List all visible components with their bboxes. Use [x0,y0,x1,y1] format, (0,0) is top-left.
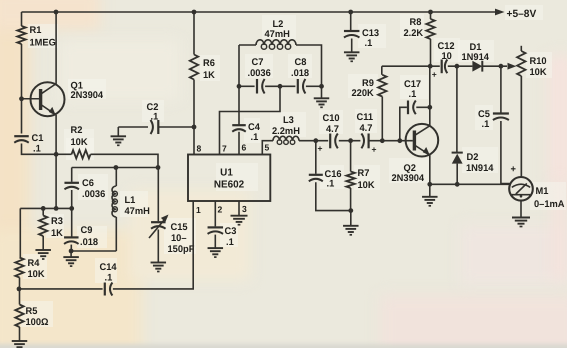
ground below R3 [35,250,51,259]
wire top +V supply rail [22,10,497,15]
svg-text:.1: .1 [33,144,41,155]
label C9 [80,225,99,248]
wire pin 5 lead [262,141,273,155]
label C4 [248,122,261,143]
svg-text:C4: C4 [248,122,261,133]
node emitter/R2 junction [54,152,59,157]
ground below R7 [343,226,359,235]
wire C15 to ground [157,230,159,263]
wire pin 7 to tank tap [220,86,281,154]
svg-text:1: 1 [196,205,201,215]
power +5-8V supply arrow and label [495,8,536,20]
capacitor C9 [64,237,79,244]
resistor R10 potentiometer [517,46,525,177]
label C16 [325,169,342,189]
wire R9 top to R8 node [382,64,440,69]
capacitor C12 [442,60,448,74]
plus mark M1 [511,164,517,175]
wire C7 to C8 [265,84,295,89]
capacitor C13 branch [350,12,352,30]
svg-text:10K: 10K [530,67,547,78]
wire oscillator tank top [72,167,158,169]
label L3 [272,115,300,137]
label R6 [203,58,215,81]
capacitor C2 [151,120,159,134]
capacitor C15 variable [149,215,169,239]
wire C6 to node [71,190,73,237]
svg-text:C15: C15 [171,222,189,233]
svg-text:R1: R1 [30,25,43,36]
capacitor C11 [361,134,368,149]
capacitor C7 [257,79,265,94]
label R4 [28,258,45,280]
pin 2 label [218,205,223,215]
svg-text:10: 10 [442,51,452,62]
wire R1 to Q1 base node [21,44,23,134]
label R1 value [30,25,56,48]
svg-text:.1: .1 [409,89,417,100]
node R3/emitter wire junction [69,206,74,211]
svg-text:2.2mH: 2.2mH [272,126,300,137]
svg-text:NE602: NE602 [214,180,245,191]
svg-text:2.2K: 2.2K [404,28,424,39]
svg-text:.1: .1 [482,119,490,130]
label C6 [82,178,105,200]
label C17 [404,79,421,100]
wire base bias row [20,206,71,211]
capacitor C17 branch left [400,107,407,140]
wire R10 to meter [520,76,522,177]
label R5 [26,306,49,328]
svg-text:.1: .1 [327,179,335,190]
inductor L3 [273,136,299,144]
svg-text:+: + [432,70,437,80]
wire C9 node stub [70,251,72,257]
wire C16 to R7 bottom [316,182,351,210]
svg-text:R10: R10 [530,56,547,67]
svg-text:.1: .1 [226,237,234,248]
wire tank right to ground [321,86,323,98]
svg-text:3: 3 [242,204,247,214]
wire Q2 collector [429,107,431,126]
wire C12 to D1 [448,64,473,69]
plus mark C12 [432,70,437,80]
capacitor C4 [232,125,246,132]
wire C8 to tank right [306,84,324,89]
plus mark C10 [318,144,323,154]
svg-text:U1: U1 [220,168,233,179]
resistor R1 [17,26,25,44]
wire C9 node to L1 bottom [71,250,116,252]
wire C2 to pin8 node [159,126,194,128]
svg-text:2N3904: 2N3904 [392,173,425,184]
wire tank to C6 [71,168,73,182]
resistor R7 [346,141,354,211]
op-amp U1 NE602 box [188,155,270,202]
ground below C9 [63,257,79,266]
svg-text:+5–8V: +5–8V [507,8,537,20]
svg-text:.1: .1 [251,132,259,143]
plus mark C11 [372,145,377,155]
wire pin 3 lead [238,201,240,215]
label C1 [32,133,45,154]
wiper arrow into R10 [508,63,517,70]
svg-text:4.7: 4.7 [326,124,339,135]
svg-text:.1: .1 [365,38,373,49]
ground below M1 [512,218,530,227]
svg-text:.018: .018 [291,68,310,79]
resistor R4 [15,258,23,278]
label Q1 [71,81,104,101]
capacitor C5 branch [500,66,502,112]
capacitor C17 [408,101,416,115]
svg-text:C9: C9 [81,225,93,236]
resistor R8 [426,12,434,66]
label M1 [534,186,565,210]
wire pin 8 lead [193,127,195,155]
svg-text:1K: 1K [203,70,215,81]
node Q1 base junction [19,96,24,101]
wire L1 bottom lead [115,217,117,251]
wire L3 to C10 [299,138,328,143]
wire C5 to output row [501,121,510,184]
resistor R5 [15,305,23,328]
diode D2 branch [456,66,458,152]
svg-text:4.7: 4.7 [360,123,373,134]
label Q2 [392,163,425,184]
svg-text:M1: M1 [536,186,550,197]
svg-text:R3: R3 [51,216,63,227]
ground below C13 [344,52,360,61]
svg-text:L3: L3 [283,115,294,126]
pin 5 label [265,143,270,153]
wire tank bottom left [237,84,255,89]
wire C9 to ground node [69,245,74,254]
svg-text:5: 5 [265,143,270,153]
ground below pin 3 [231,216,248,225]
label R9 [352,78,374,99]
label R2 [71,125,88,148]
svg-text:10K: 10K [358,180,375,191]
node C16/R7 ground [348,208,353,213]
svg-text:C3: C3 [225,226,237,237]
pin 8 label [197,144,202,154]
resistor R2 [72,150,91,158]
transistor Q2 [406,124,439,157]
node L1 top [114,165,119,170]
wire D1 to C5 node [482,64,507,69]
label D1 [462,42,490,63]
svg-text:C12: C12 [438,41,455,52]
ground below tank [314,98,330,107]
svg-text:47mH: 47mH [265,29,290,40]
ground below Q2 [422,197,438,206]
wire C1 bottom to R2 wire [22,144,57,155]
ground below C3 [208,248,224,257]
svg-text:R5: R5 [26,306,39,317]
svg-text:L1: L1 [125,195,137,206]
svg-text:10–: 10– [171,233,187,244]
capacitor C6 [64,183,79,190]
svg-text:10K: 10K [28,269,45,280]
wire M1 to ground [520,201,522,217]
wire emitter ground stub [429,184,431,196]
ground below C15 [151,263,167,272]
wire R5 to ground [19,327,21,341]
node C15 branch [156,165,161,170]
node R6/C2/pin8 [192,125,197,130]
label C14 [100,262,118,284]
label L2 [265,19,290,40]
svg-text:+: + [372,145,377,155]
wire C16 branch [315,141,317,174]
svg-text:D2: D2 [467,152,479,163]
capacitor C1 [14,136,29,143]
wire C10 to C11 [339,138,361,143]
label L1 [125,195,150,217]
svg-text:.1: .1 [105,273,113,284]
pin 7 label [222,144,227,154]
capacitor C10 [330,134,338,149]
ground left of C2 [111,127,127,145]
inductor L2 [239,40,322,87]
svg-text:0–1mA: 0–1mA [534,199,565,210]
svg-text:1N914: 1N914 [462,52,490,63]
label R8 [404,17,424,39]
svg-text:R8: R8 [410,17,423,28]
capacitor C16 [309,175,323,182]
label C15 [168,222,195,255]
label D2 [466,152,494,174]
svg-text:2: 2 [218,205,223,215]
svg-text:C6: C6 [82,178,94,189]
label C10 [323,113,340,135]
svg-text:1N914: 1N914 [466,163,494,174]
inductor L1 [112,186,117,217]
wire C11 to Q2 base [369,138,413,143]
capacitor C5 [493,114,509,121]
svg-text:10K: 10K [71,137,88,148]
svg-text:C14: C14 [100,262,118,273]
label R7 [358,168,375,191]
wire C4 to tank [238,45,240,125]
wire Q2 emitter [429,155,431,184]
svg-text:C8: C8 [295,57,308,68]
svg-text:R2: R2 [71,125,83,136]
svg-text:1MEG: 1MEG [30,38,56,49]
svg-text:8: 8 [197,144,202,154]
wire C3 to ground [214,235,216,248]
pin 1 label [196,205,201,215]
pin 3 label [242,204,247,214]
label C12 [438,41,455,62]
svg-text:C10: C10 [323,113,340,124]
diode D2 [452,153,463,164]
background paper tint patches [0,0,30,348]
pin 6 label [242,143,247,153]
wire C13 to ground [351,39,353,52]
transistor Q1 [22,82,65,116]
wire emitter output row [427,182,509,187]
wire L1 top lead [115,168,117,187]
svg-text:150pF: 150pF [168,244,195,255]
wire D2 to emitter row [456,164,458,185]
svg-text:220K: 220K [352,88,374,99]
capacitor C14 [105,283,113,296]
wire emitter to R2 [56,153,71,155]
svg-text:+: + [511,164,517,175]
wire feedback bottom row [19,288,103,290]
svg-text:C7: C7 [252,57,264,68]
svg-text:C11: C11 [357,112,374,123]
svg-text:2N3904: 2N3904 [71,90,104,101]
resistor R6 [190,12,198,127]
label R3 [51,216,63,239]
diode D1 [472,61,482,72]
svg-text:+: + [318,144,323,154]
wire C15 top lead [157,168,159,222]
svg-text:R6: R6 [203,58,215,69]
svg-text:.018: .018 [80,237,99,248]
svg-text:.0036: .0036 [82,189,105,200]
wire R4 to R5 junction [17,278,22,305]
resistor R9 [378,66,386,141]
label C7 [248,57,271,79]
wire ground to C2 [118,126,148,128]
svg-text:.1: .1 [151,112,159,123]
label C8 [291,57,310,79]
wire pin 6 lead [238,132,240,155]
label C11 [357,112,374,134]
wire left vertical (rail to R1) [21,12,23,26]
ground below R5 [12,341,28,348]
svg-text:1K: 1K [51,228,63,239]
capacitor C8 [298,79,306,94]
svg-text:47mH: 47mH [125,206,150,217]
capacitor C13 [344,31,360,38]
svg-text:100Ω: 100Ω [26,317,49,328]
svg-text:6: 6 [242,143,247,153]
svg-text:7: 7 [222,144,227,154]
capacitor C17 branch right [416,66,432,110]
svg-text:R4: R4 [28,258,41,269]
capacitor C3 [208,227,224,234]
label C2 [147,102,159,123]
label R10 [530,56,547,78]
svg-text:.0036: .0036 [248,68,271,79]
resistor R3 [39,208,47,249]
wire pin 2 lead [214,201,216,226]
label C5 [478,109,491,130]
meter M1 [509,177,533,201]
svg-text:R7: R7 [358,168,370,179]
wire Q1 collector to rail [55,12,57,84]
wire Q1 emitter down [55,115,57,208]
label C13 [362,28,379,49]
wire C14 to U1 pin 1 [113,201,193,289]
wire R2 to corner down [91,154,159,167]
wire left vertical to R4 [19,208,21,257]
wire to ground [350,211,352,226]
label C3 [225,226,237,248]
